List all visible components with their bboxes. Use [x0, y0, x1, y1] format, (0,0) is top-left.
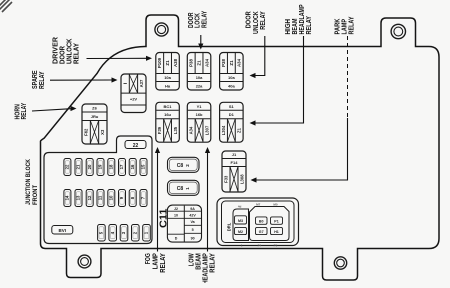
svg-text:F33: F33: [223, 175, 228, 183]
svg-text:G7: G7: [259, 230, 264, 234]
svg-text:FRONT: FRONT: [32, 184, 39, 205]
svg-text:RELAY: RELAY: [72, 43, 81, 64]
svg-text:Z1: Z1: [237, 127, 242, 133]
scan artifact, top-left corner: [0, 0, 12, 12]
svg-text:M2: M2: [238, 230, 243, 234]
svg-text:L307: L307: [204, 125, 209, 135]
svg-text:RELAY: RELAY: [304, 16, 313, 35]
svg-text:Z6: Z6: [92, 106, 97, 111]
leader wire to park lamp relay: [347, 36, 349, 118]
svg-text:P38: P38: [221, 59, 226, 67]
svg-text:J2: J2: [174, 207, 178, 211]
relay K3 (door unlock) P38/Z1/A34: [220, 53, 244, 91]
fuse 17: [119, 159, 126, 176]
relay K7 (horn) Z6 F62/X3: [82, 104, 107, 144]
svg-text:16b: 16b: [196, 112, 203, 117]
svg-text:10a: 10a: [196, 75, 203, 80]
svg-text:L35: L35: [173, 126, 178, 134]
svg-text:21: 21: [76, 164, 81, 169]
svg-text:+2V: +2V: [130, 97, 138, 102]
svg-text:14: 14: [65, 195, 70, 200]
fuse 15: [140, 159, 147, 176]
bolt hole, top-right tab: [391, 24, 405, 38]
svg-text:18: 18: [108, 164, 113, 169]
svg-text:C11: C11: [158, 208, 169, 228]
svg-text:L304: L304: [221, 125, 226, 135]
svg-text:RELAY: RELAY: [19, 103, 28, 120]
connector C8-1: [168, 180, 200, 195]
DRL connector block outer housing: [217, 198, 299, 246]
svg-text:RELAY: RELAY: [158, 253, 167, 273]
leader wire to fog lamp relay: [157, 153, 159, 252]
svg-text:10: 10: [174, 213, 178, 217]
svg-text:D1: D1: [229, 112, 235, 117]
svg-text:H1: H1: [274, 230, 279, 234]
svg-text:15: 15: [141, 164, 146, 169]
svg-text:J1: J1: [232, 152, 237, 157]
svg-text:Ha: Ha: [165, 83, 171, 88]
fuse 22 spare position label box: [125, 141, 146, 149]
svg-text:5: 5: [192, 228, 194, 232]
svg-text:42V: 42V: [189, 213, 196, 217]
svg-text:C8: C8: [177, 163, 184, 169]
svg-text:13: 13: [76, 195, 81, 200]
fuse 14: [64, 190, 71, 207]
svg-text:P4: P4: [258, 243, 262, 247]
relay sub-connector (right): [250, 207, 290, 241]
fuse 16: [129, 159, 136, 176]
svg-text:19: 19: [98, 164, 103, 169]
svg-text:JUNCTION BLOCK: JUNCTION BLOCK: [25, 159, 32, 205]
svg-text:A38: A38: [173, 58, 178, 67]
svg-text:11: 11: [98, 195, 103, 200]
fuse 21: [75, 159, 82, 176]
relay K8 (park lamp) J1 F33/L308: [222, 151, 246, 192]
leader wire to low beam headlamp relay: [207, 153, 209, 252]
svg-text:Z1: Z1: [229, 60, 234, 66]
svg-text:Z1: Z1: [196, 60, 201, 66]
fuse 1: [143, 225, 151, 242]
relay K2 (door lock) P38/Z1/A34: [187, 53, 211, 91]
svg-text:B0: B0: [259, 219, 264, 223]
svg-text:22a: 22a: [196, 83, 203, 88]
connector C8-2: [168, 157, 200, 172]
svg-text:RELAY: RELAY: [200, 11, 209, 28]
fuse 7: [140, 190, 147, 207]
fuse 9: [119, 190, 126, 207]
svg-text:22: 22: [65, 164, 70, 169]
svg-text:RELAY: RELAY: [37, 71, 46, 89]
svg-text:Z1: Z1: [165, 60, 170, 66]
svg-text:P109: P109: [157, 57, 162, 68]
svg-text:DRL: DRL: [227, 222, 232, 231]
svg-text:F62: F62: [84, 128, 89, 136]
svg-text:RELAY: RELAY: [208, 253, 217, 273]
relay K4 (fog lamp) BC1 F39/L35: [156, 102, 180, 142]
svg-text:P1: P1: [274, 219, 278, 223]
svg-text:F14: F14: [231, 160, 239, 165]
connector C11 grid: [167, 205, 201, 242]
leader wire to driver door unlock relay: [87, 57, 148, 59]
svg-text:L308: L308: [239, 174, 244, 184]
fuse 10: [108, 190, 115, 207]
svg-text:4d: 4d: [238, 205, 242, 209]
svg-text:16: 16: [130, 164, 135, 169]
fuse 5: [98, 225, 106, 242]
leader wire to spare relay: [50, 79, 112, 81]
svg-text:RELAY: RELAY: [258, 11, 267, 30]
fuse 4: [109, 225, 117, 242]
svg-text:D: D: [175, 237, 178, 241]
svg-text:RELAY: RELAY: [347, 16, 356, 34]
DRL sub-connector (left): [233, 209, 249, 241]
svg-text:M0: M0: [273, 202, 277, 206]
fuse 12: [86, 190, 93, 207]
svg-text:A34: A34: [237, 58, 242, 67]
svg-text:9A: 9A: [190, 207, 195, 211]
bolt hole, top-left tab: [155, 23, 168, 36]
svg-text:M7: M7: [256, 202, 260, 206]
svg-text:C8: C8: [177, 186, 184, 192]
bolt hole, bottom-left tab: [78, 255, 91, 268]
svg-text:20: 20: [87, 164, 92, 169]
svg-text:X3: X3: [100, 129, 105, 135]
leader wire to door lock relay: [200, 35, 202, 45]
svg-text:22: 22: [133, 143, 139, 149]
svg-text:A34: A34: [189, 126, 194, 134]
svg-text:Y1: Y1: [197, 104, 203, 109]
svg-text:10: 10: [108, 195, 113, 200]
fuse 2: [132, 225, 140, 242]
relay K5 (low beam headlamp) Y1 A34/L307: [187, 102, 211, 142]
svg-text:A37: A37: [139, 79, 144, 87]
svg-text:17: 17: [119, 164, 124, 169]
fuse 8: [129, 190, 136, 207]
svg-text:P38: P38: [189, 59, 194, 67]
svg-text:40a: 40a: [228, 83, 235, 88]
fuse 19: [97, 159, 104, 176]
fuse 18: [108, 159, 115, 176]
leader wire to horn relay: [32, 109, 71, 111]
svg-text:BC1: BC1: [164, 104, 173, 109]
bolt hole, bottom-right tab: [334, 257, 346, 269]
svg-text:M3: M3: [238, 219, 243, 223]
svg-text:BVI: BVI: [59, 228, 67, 233]
relay K6 (high beam headlamp) S1 L304/Z1: [220, 102, 244, 142]
svg-text:16u: 16u: [164, 112, 171, 117]
fuse 22: [64, 159, 71, 176]
svg-text:P5: P5: [274, 243, 278, 247]
fuse 13: [75, 190, 82, 207]
svg-text:10a: 10a: [228, 75, 235, 80]
DRL connector block inner housing: [222, 201, 295, 243]
svg-text:JRu: JRu: [91, 114, 99, 119]
svg-text:F39: F39: [157, 126, 162, 134]
breaker BVI box: [52, 226, 73, 235]
svg-text:10a: 10a: [164, 75, 171, 80]
fuse 11: [97, 190, 104, 207]
leader wire to door unlock relay: [255, 36, 265, 76]
fuse panel outline (junction block front): [44, 136, 152, 244]
relay K1 (driver door unlock) P109/Z1/A38: [156, 53, 180, 91]
svg-text:12: 12: [87, 195, 92, 200]
svg-text:S1: S1: [229, 104, 235, 109]
relay K9 (spare) A37: [121, 74, 146, 113]
pin labels: [238, 202, 278, 247]
fuse 20: [86, 159, 93, 176]
fuse 3: [120, 225, 128, 242]
svg-text:A34: A34: [204, 58, 209, 67]
svg-text:90: 90: [191, 237, 195, 241]
leader wire to high beam headlamp relay: [255, 36, 304, 123]
